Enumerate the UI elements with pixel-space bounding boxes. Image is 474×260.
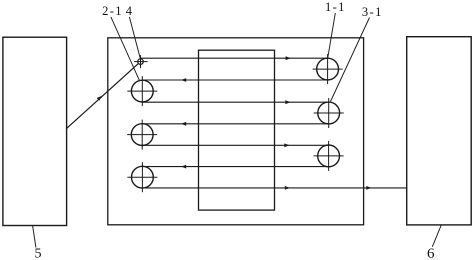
leader line 6 <box>432 225 441 247</box>
flow arrow pass 2 <box>181 78 186 82</box>
inlet fitting 4 (small circle with cross) <box>134 55 148 68</box>
left box 5 (inlet tank) <box>3 37 67 225</box>
svg-text:1-1: 1-1 <box>325 0 346 14</box>
flow arrow inlet pipe <box>97 96 102 101</box>
tube pass 6 <box>142 166 328 168</box>
flow arrow pass 6 <box>181 165 186 169</box>
tube pass 7 outlet line <box>142 187 406 189</box>
flow arrow pass 1 <box>286 56 291 60</box>
leader line 2-1 <box>111 17 140 81</box>
return bend L1 (2-1) <box>127 76 157 106</box>
svg-text:3-1: 3-1 <box>362 5 383 19</box>
right box 6 (outlet tank) <box>407 37 472 225</box>
tube pass 1 <box>141 57 328 59</box>
leader line 3-1 <box>331 18 370 102</box>
flow arrow pass 3 <box>285 100 290 104</box>
inner core rectangle <box>199 50 275 210</box>
flow arrow pass 5 <box>284 143 289 147</box>
leader line 1-1 <box>328 13 336 58</box>
heat-exchanger shell (big rectangle) <box>108 38 364 225</box>
tube pass 4 <box>142 123 328 125</box>
leader line 4 <box>129 17 140 58</box>
return bend R3 <box>314 141 344 171</box>
tube pass 5 <box>142 144 328 146</box>
flow arrow pass 7b <box>366 186 371 190</box>
svg-text:6: 6 <box>427 246 435 260</box>
tube pass 3 <box>142 101 328 103</box>
return bend L3 <box>127 162 157 192</box>
return bend R2 (3-1) <box>314 98 344 128</box>
tube pass 2 <box>142 79 327 81</box>
svg-text:4: 4 <box>126 4 133 18</box>
inlet pipe from box 5 <box>67 64 139 129</box>
return bend R1 (1-1) <box>313 54 343 84</box>
flow arrow pass 7a <box>285 186 290 190</box>
flow arrow pass 4 <box>181 122 186 126</box>
svg-text:5: 5 <box>35 246 42 260</box>
leader line 5 <box>33 226 36 248</box>
return bend L2 <box>127 120 157 150</box>
svg-text:2-1: 2-1 <box>102 4 123 18</box>
